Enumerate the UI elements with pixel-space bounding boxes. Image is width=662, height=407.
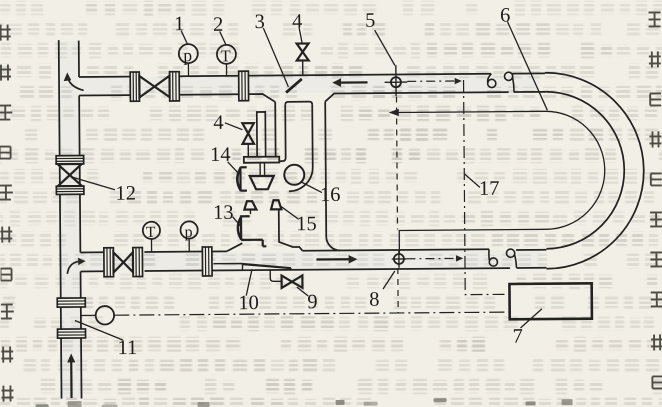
U-bend inner wall arc	[545, 91, 625, 249]
flow arrow right at bottom tee	[67, 258, 86, 274]
assembly left splay to pipe 2	[227, 243, 243, 251]
svg-text:1: 1	[174, 13, 184, 35]
item 15 trapezoid	[271, 200, 281, 209]
valve 4a hourglass above pipe 1	[297, 43, 309, 75]
standpipe tube of assembly	[257, 112, 266, 157]
wire: left vertical pipe inner wall (gaps at tees)	[79, 41, 82, 399]
label 5 leader	[375, 30, 395, 66]
svg-text:9: 9	[307, 291, 317, 313]
right downcomer left wall with curve to item 15	[288, 105, 313, 192]
reference line 17 vertical with elbow into counter	[464, 80, 510, 295]
flow arrow up at top tee	[64, 72, 84, 90]
svg-text:17: 17	[479, 178, 500, 200]
label 8 leader	[383, 271, 395, 289]
item 15 drop wire and splay to pipe 2	[279, 209, 303, 251]
svg-text:12: 12	[115, 183, 136, 205]
svg-text:16: 16	[320, 184, 341, 206]
flow arrow right inside pipe 2	[316, 255, 357, 264]
pressure gauge p (item 1)	[179, 44, 198, 76]
mounting bar of item 14	[244, 157, 279, 163]
svg-text:T: T	[221, 46, 231, 65]
svg-text:p: p	[183, 45, 192, 65]
label 3 leader	[263, 28, 288, 87]
pressure gauge p on pipe 2	[180, 221, 197, 251]
valve 12 bowtie	[58, 164, 82, 186]
item 13 step	[249, 210, 251, 215]
svg-text:3: 3	[254, 11, 264, 33]
valve flange right on pipe 1	[169, 72, 179, 101]
wedge item 10 in pipe 2	[213, 263, 291, 271]
valve flange left on pipe 2	[104, 248, 114, 277]
svg-text:T: T	[146, 224, 156, 241]
left downcomer walls	[275, 102, 285, 161]
temperature gauge T on pipe 2	[143, 222, 160, 252]
label 16 leader	[301, 182, 322, 193]
valve 9 bowtie	[282, 275, 303, 288]
entry flow arrow at bottom of vertical pipe	[67, 354, 76, 399]
flow arrow left inside pipe 1	[332, 78, 367, 87]
long horizontal axis dash-dot line	[114, 312, 509, 315]
valve flange left on pipe 1	[130, 72, 139, 101]
svg-text:14: 14	[210, 144, 231, 166]
flange F3 on pipe 1	[239, 71, 249, 101]
pipe break symbol pair on pipe 1	[488, 72, 515, 92]
funnel stem	[260, 163, 265, 176]
wire: pipe 2 bottom wall	[81, 268, 547, 272]
svg-text:13: 13	[213, 202, 234, 224]
temperature gauge T (item 2)	[217, 45, 236, 76]
valve 12 flanges on vertical pipe	[56, 156, 84, 195]
svg-text:7: 7	[512, 325, 522, 347]
counter box item 7	[509, 283, 591, 319]
item 13 upper trapezoid	[244, 201, 256, 209]
wire: pipe 1 bottom wall with reducer slope and branch mouth	[79, 92, 545, 107]
funnel cup of assembly	[250, 176, 274, 189]
svg-text:6: 6	[500, 5, 510, 27]
detector 5 crossed circle on pipe 1	[385, 65, 408, 96]
drain stub to valve 9	[270, 270, 281, 281]
item 13 lens bracket	[238, 215, 267, 247]
item 3 slash mark on pipe 1	[286, 79, 302, 93]
center line dash-dot in pipe 1 with arrowhead at line 17	[407, 78, 462, 85]
flange F4 on pipe 2	[202, 247, 212, 276]
svg-text:2: 2	[213, 14, 223, 36]
blower circle item 16	[284, 165, 304, 185]
flange pair item 11 on vertical pipe	[57, 298, 85, 338]
dimension line between detectors following the bend	[389, 107, 606, 254]
svg-text:11: 11	[118, 337, 138, 359]
valve 4b hourglass in assembly	[242, 123, 254, 157]
wire: pipe 1 top wall	[79, 73, 545, 77]
valve flange right on pipe 2	[133, 247, 143, 276]
label 14 leader	[228, 162, 239, 174]
svg-text:4: 4	[292, 11, 302, 33]
wire: pipe 2 top wall	[80, 249, 546, 254]
label 6 leader	[507, 21, 547, 110]
svg-text:5: 5	[365, 10, 375, 32]
detector 8 crossed circle on pipe 2	[392, 251, 407, 268]
label 2 leader	[220, 31, 226, 44]
item 14 lens bracket	[237, 167, 247, 192]
label 13 leader	[233, 217, 242, 227]
label 17 leader	[465, 174, 480, 188]
label 4b leader	[225, 123, 243, 130]
svg-text:p: p	[185, 224, 193, 241]
center line dash-dot in pipe 2 with arrowhead at line 17	[406, 255, 463, 262]
svg-text:10: 10	[238, 292, 259, 314]
wire: left vertical pipe outer wall	[59, 40, 62, 398]
label 9 leader	[297, 287, 308, 296]
dashed plumb line below detector 5	[396, 96, 398, 312]
U-bend outer wall arc	[545, 72, 645, 269]
svg-text:15: 15	[296, 213, 317, 235]
svg-text:8: 8	[369, 289, 379, 311]
label 12 leader	[72, 177, 115, 190]
pipe interior tint	[60, 37, 543, 398]
pump circle on axis	[81, 306, 114, 325]
label 10 leader	[246, 269, 252, 296]
label 1 leader	[181, 31, 187, 44]
pipe break symbol pair on pipe 2	[489, 249, 517, 268]
label 11 leader	[75, 320, 123, 340]
svg-text:4: 4	[213, 112, 223, 134]
label 7 leader	[520, 309, 542, 328]
label 4a leader	[299, 28, 302, 43]
valve bowtie on pipe 1	[139, 76, 169, 98]
valve bowtie on pipe 2	[113, 252, 133, 272]
right downcomer right wall with curve to pipe 2	[325, 101, 340, 250]
label 15 leader	[281, 207, 298, 220]
